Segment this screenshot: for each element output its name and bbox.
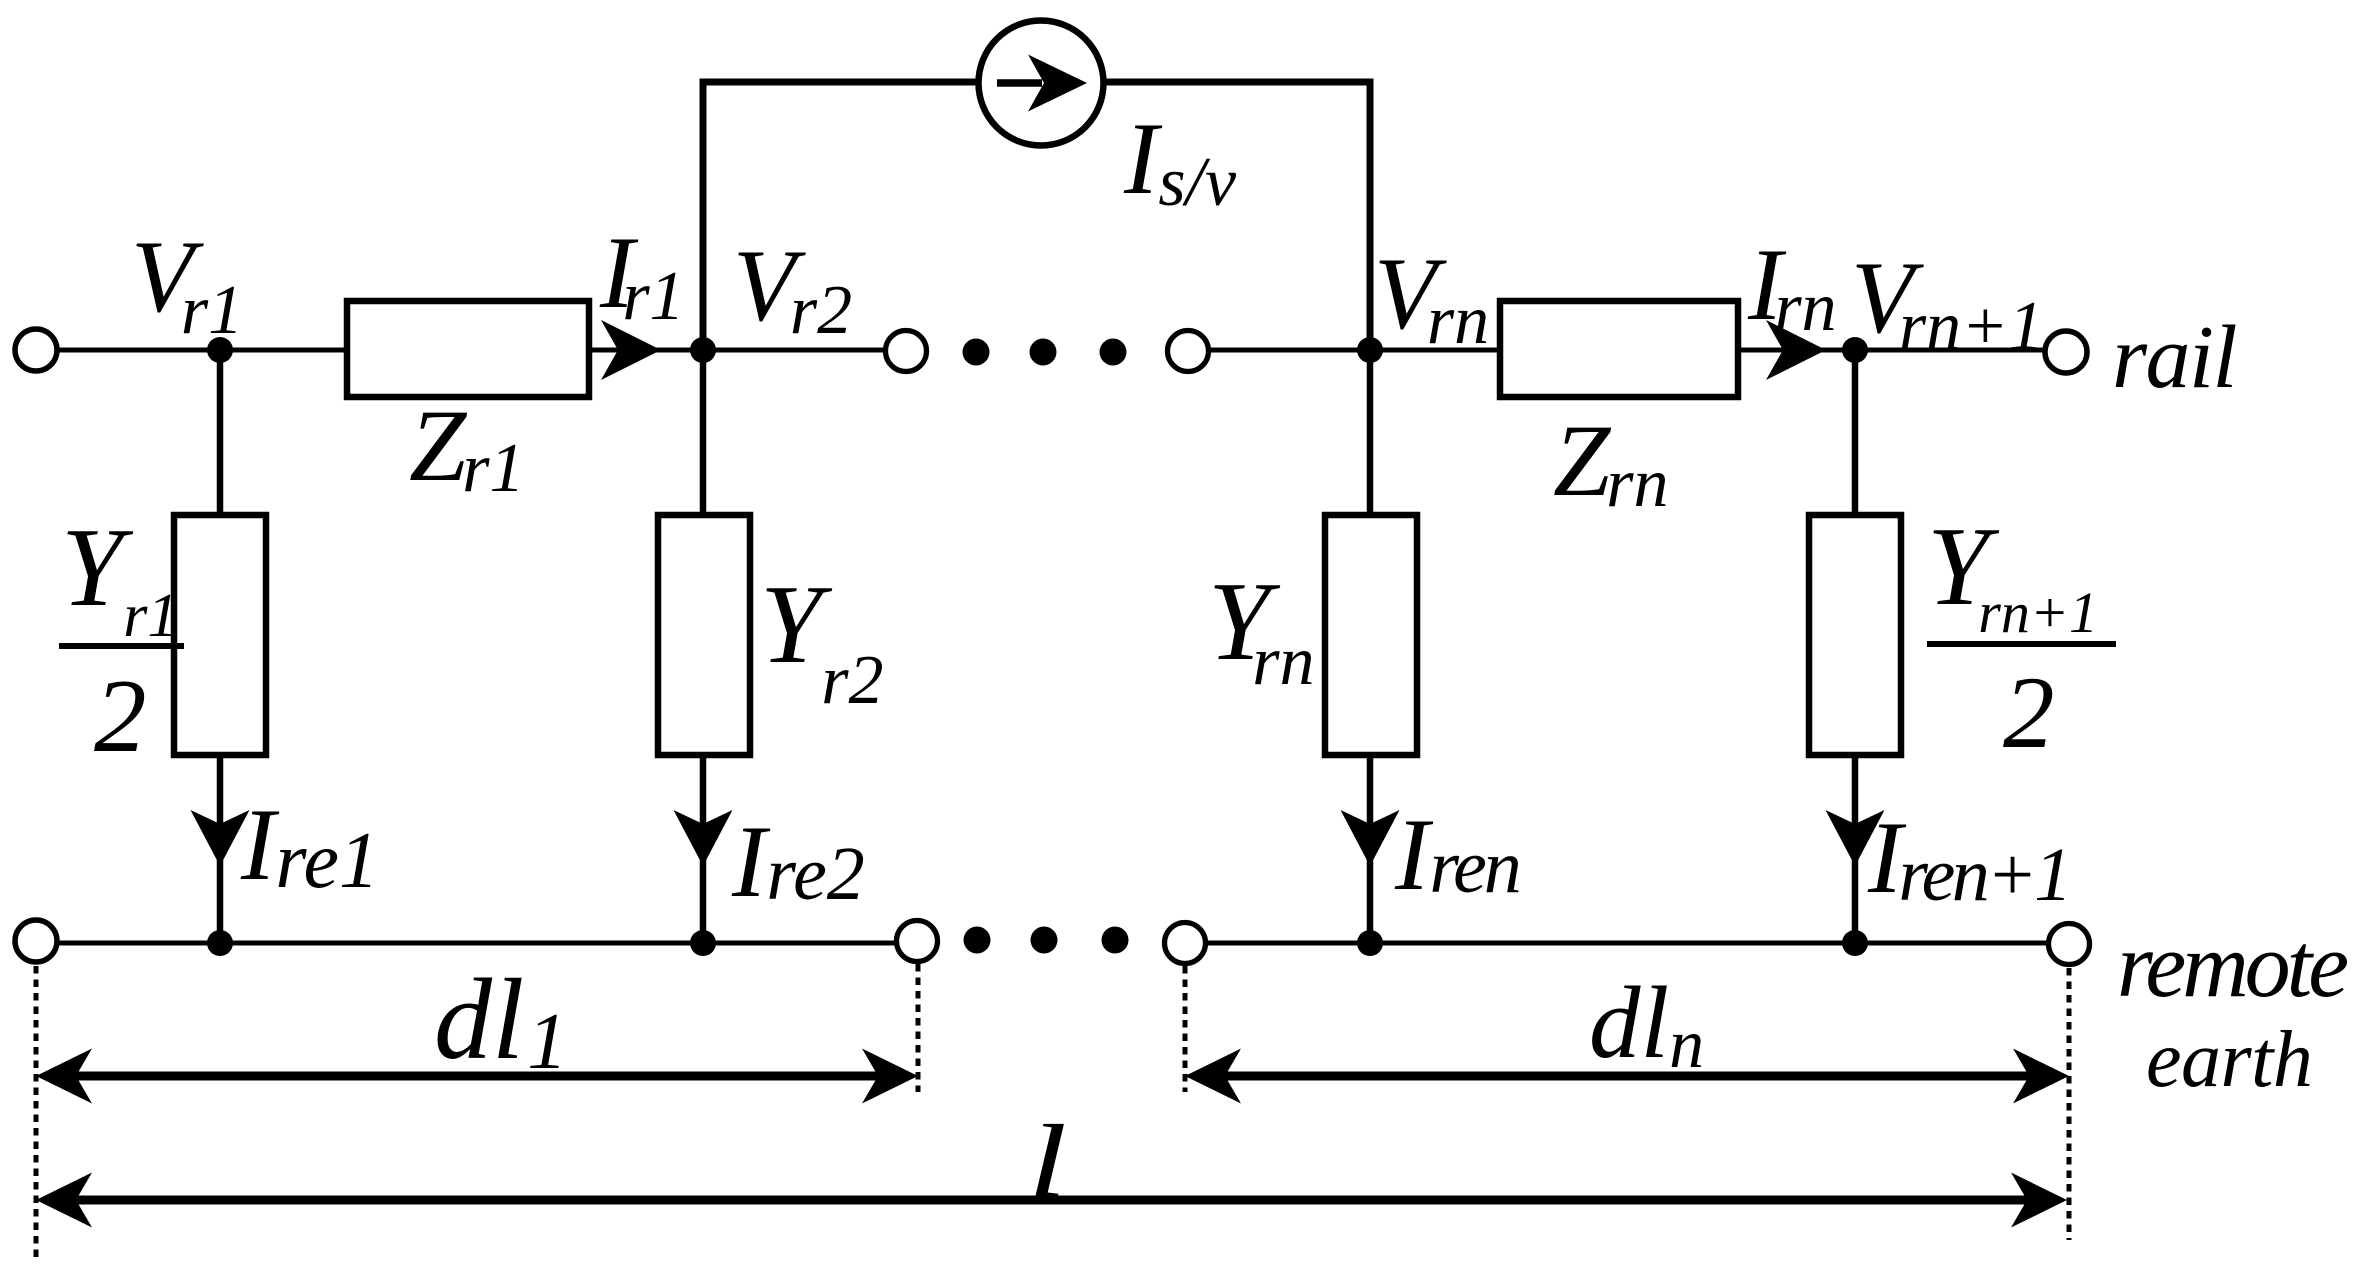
arrow Iren+1: [1826, 810, 1885, 866]
admittance Yr2 branch wire lower: [700, 755, 707, 943]
terminal earth right: [2049, 924, 2090, 965]
dimension arrow dl1: [70, 1072, 884, 1081]
terminal earth left: [15, 920, 57, 962]
dotted extension left: [34, 966, 39, 1262]
current source Is/v circle: [979, 21, 1104, 146]
wire: rail segment left terminal to Zr1: [57, 348, 351, 353]
arrow Irn: [1766, 320, 1826, 380]
dimension arrow l: [70, 1196, 2033, 1205]
wire: earth line left segment: [57, 941, 897, 946]
node earth n: [1357, 930, 1383, 956]
wire: current-source loop top right: [1105, 79, 1374, 86]
wire: rail segment Zr1 to Vr2 node: [585, 348, 887, 353]
svg-text:remote: remote: [2117, 914, 2347, 1016]
svg-text:2: 2: [94, 657, 147, 774]
ellipsis dots rail: [963, 339, 990, 366]
node earth n+1: [1842, 930, 1868, 956]
dotted extension right: [2067, 968, 2072, 1240]
svg-text:l: l: [1028, 1103, 1067, 1218]
terminal rail left: [15, 329, 57, 371]
admittance Yr1/2 branch wire lower: [217, 755, 224, 943]
node earth 1: [207, 930, 233, 956]
wire: current-source loop right vertical: [1367, 79, 1374, 351]
wire: current-source loop top left: [700, 79, 978, 86]
admittance Yr1/2 box: [174, 515, 266, 755]
resistor Zr1: [347, 301, 589, 397]
admittance Yr2 box: [658, 515, 750, 755]
svg-text:rail: rail: [2112, 308, 2237, 407]
admittance Yrn+1/2 box: [1809, 515, 1901, 755]
admittance Yrn box: [1325, 515, 1417, 755]
terminal earth mid-left: [897, 921, 938, 962]
wire: earth line right segment: [1205, 941, 2049, 946]
svg-text:earth: earth: [2146, 1016, 2312, 1104]
svg-text:2: 2: [2003, 656, 2055, 770]
arrow Ire2: [674, 810, 733, 866]
admittance Yr2 branch wire upper: [700, 350, 707, 518]
terminal rail right: [2045, 331, 2087, 373]
arrow Iren: [1341, 810, 1400, 866]
wire: current-source loop left vertical: [700, 79, 707, 351]
terminal earth mid-right: [1165, 923, 1206, 964]
wire: rail segment circle to Zrn: [1207, 348, 1504, 353]
admittance Yrn branch wire upper: [1367, 350, 1374, 518]
current source arrow: [997, 79, 1042, 87]
terminal rail mid-right: [1168, 331, 1209, 372]
terminal rail mid-left: [886, 331, 927, 372]
admittance Yr1/2 branch wire upper: [217, 350, 224, 518]
node Vr2: [690, 337, 716, 363]
node earth 2: [690, 930, 716, 956]
node Vrn+1: [1842, 337, 1868, 363]
dotted extension dl1 right: [916, 964, 921, 1092]
dimension arrow dln: [1219, 1072, 2035, 1081]
node Vr1: [207, 337, 233, 363]
admittance Yrn+1/2 branch wire upper: [1852, 350, 1859, 518]
dotted extension dln left: [1183, 966, 1188, 1092]
arrow Ir1: [601, 320, 661, 380]
resistor Zrn: [1500, 301, 1738, 397]
arrow Ire1: [191, 810, 250, 866]
ellipsis dots earth: [964, 927, 991, 954]
wire: rail segment Zrn to right terminal: [1734, 348, 2046, 353]
admittance Yrn branch wire lower: [1367, 755, 1374, 943]
node Vrn: [1357, 337, 1383, 363]
admittance Yrn+1/2 branch wire lower: [1852, 755, 1859, 943]
